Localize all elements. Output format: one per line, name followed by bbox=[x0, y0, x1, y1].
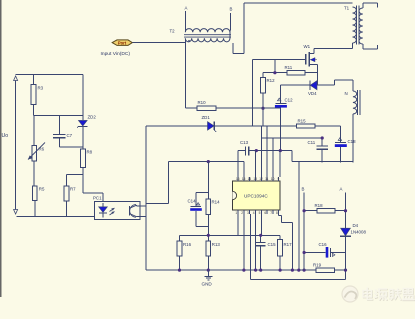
capacitor C12 bbox=[275, 98, 287, 107]
label C14 bbox=[188, 199, 197, 204]
capacitor C13 bbox=[246, 146, 249, 155]
svg-text:ZD1: ZD1 bbox=[202, 115, 211, 120]
wire W1 source down bbox=[316, 65, 318, 86]
zener diode ZD2 bbox=[77, 120, 88, 127]
wire R18 right bbox=[335, 210, 346, 212]
wire C15 bottom bbox=[260, 246, 262, 270]
wire R10 right to C12 bbox=[216, 107, 281, 109]
junction C13 right bbox=[255, 149, 258, 152]
wire W1 gate line bbox=[253, 60, 306, 127]
label ZD2 bbox=[88, 115, 97, 120]
wire N bottom to secondary line bbox=[352, 114, 354, 163]
wire pin16 up bbox=[237, 151, 239, 177]
junction on ground bus bbox=[242, 269, 245, 272]
junction on ground bus bbox=[279, 269, 282, 272]
svg-text:R11: R11 bbox=[285, 65, 293, 70]
label VD4 bbox=[308, 91, 317, 96]
svg-text:R14: R14 bbox=[212, 200, 221, 205]
svg-text:1: 1 bbox=[235, 211, 237, 215]
label 1N4008 bbox=[351, 230, 367, 235]
wire R7 top bbox=[66, 175, 68, 187]
junction on ground bus bbox=[254, 269, 257, 272]
winding N bbox=[353, 90, 360, 115]
resistor R14 bbox=[206, 199, 220, 214]
svg-text:14: 14 bbox=[248, 177, 252, 181]
junction on ground bus bbox=[303, 269, 306, 272]
wire C7 bottom bbox=[59, 138, 83, 147]
wire R6 to R5 bbox=[33, 161, 35, 186]
wire A stub bbox=[184, 11, 186, 32]
label GND bbox=[202, 282, 213, 287]
wire R7 bottom bbox=[66, 201, 68, 216]
junction R14 column top bbox=[207, 160, 210, 163]
resistor R10 bbox=[197, 100, 216, 110]
wire C7 top bbox=[58, 115, 60, 134]
label ZD1 bbox=[202, 115, 211, 120]
svg-text:R8: R8 bbox=[87, 150, 93, 155]
svg-text:W1: W1 bbox=[304, 44, 311, 49]
wire ground bus right bbox=[335, 269, 346, 271]
wire R16 top bbox=[179, 235, 181, 241]
svg-text:Input Vin(DC): Input Vin(DC) bbox=[101, 51, 131, 57]
wire C15 line bbox=[180, 235, 281, 239]
wire ZD1-line down to ground bus bbox=[145, 126, 147, 270]
resistor R8 bbox=[81, 149, 93, 167]
svg-text:B: B bbox=[230, 7, 233, 12]
wire T1 secondary top bbox=[363, 3, 378, 8]
svg-text:B: B bbox=[302, 187, 305, 192]
wire PC1 emitter stub bbox=[137, 216, 146, 218]
label C18 bbox=[348, 139, 357, 144]
wire ZD1 line right / R15 feed bbox=[214, 125, 296, 127]
wire VD4 to N bbox=[317, 80, 353, 91]
wire pin9 up bbox=[279, 151, 281, 177]
capacitor C7 bbox=[53, 134, 66, 137]
wire pin8 jog to bus bbox=[279, 214, 293, 270]
wire B column bbox=[303, 193, 305, 271]
wire R3 top bbox=[33, 75, 35, 85]
svg-text:4: 4 bbox=[253, 211, 255, 215]
svg-text:6: 6 bbox=[264, 211, 266, 215]
svg-text:VD4: VD4 bbox=[308, 91, 317, 96]
node B (top) bbox=[230, 7, 233, 12]
resistor R15 (top) bbox=[297, 119, 315, 129]
capacitor C15 bbox=[256, 243, 266, 246]
svg-text:R6: R6 bbox=[39, 147, 45, 152]
label C13 bbox=[240, 140, 249, 145]
junction on ground bus bbox=[297, 269, 300, 272]
port P1 Input Vin(DC) bbox=[112, 40, 132, 46]
svg-text:12: 12 bbox=[259, 177, 263, 181]
node A (bottom) bbox=[340, 187, 343, 192]
wire C14 top bbox=[196, 193, 208, 207]
svg-text:C13: C13 bbox=[240, 140, 249, 145]
IC pin numbers bbox=[235, 177, 279, 215]
transistor W1 (MOSFET) bbox=[306, 52, 318, 67]
wire pin4 down bbox=[255, 214, 257, 270]
label D4 bbox=[353, 223, 359, 228]
wire Vin column to R10 bbox=[185, 38, 197, 108]
wire node to R6 bbox=[33, 115, 35, 145]
ground GND bbox=[204, 270, 212, 280]
voltage arrow Uo bbox=[14, 76, 18, 214]
svg-text:R3: R3 bbox=[38, 86, 44, 91]
svg-text:N: N bbox=[345, 91, 348, 96]
transformer T1 windings and core bbox=[353, 6, 363, 45]
svg-text:R12: R12 bbox=[267, 78, 276, 83]
resistor R3 bbox=[31, 85, 43, 105]
optocoupler PC1 bbox=[95, 201, 141, 219]
junction C15 top bbox=[259, 234, 262, 237]
wire secondary branch to bus bbox=[298, 162, 300, 270]
label C16 bbox=[319, 242, 328, 247]
IC pin stubs bbox=[238, 177, 279, 214]
wire R12 top bbox=[262, 73, 264, 78]
svg-text:A: A bbox=[340, 187, 343, 192]
svg-text:UPC1094C: UPC1094C bbox=[244, 193, 268, 198]
wire ZD1 line left bbox=[146, 125, 208, 127]
svg-text:A: A bbox=[185, 6, 188, 11]
border left edge bbox=[0, 0, 2, 297]
svg-text:C15: C15 bbox=[268, 242, 277, 247]
svg-text:R15: R15 bbox=[298, 119, 307, 124]
svg-text:10: 10 bbox=[271, 177, 275, 181]
resistor R19 bbox=[313, 263, 335, 273]
wire pin13 up bbox=[255, 151, 257, 177]
resistor R16 bbox=[177, 241, 192, 256]
wire R17 bottom bbox=[279, 256, 281, 270]
label C15 bbox=[268, 242, 277, 247]
label W1 bbox=[304, 44, 311, 49]
svg-text:1N4008: 1N4008 bbox=[351, 230, 367, 235]
wire R12 bottom bbox=[262, 93, 264, 126]
wire node line bbox=[34, 114, 83, 116]
junction R12/R10 line bbox=[261, 107, 264, 110]
op-amp U1 UPC1094C bbox=[232, 181, 280, 210]
label N bbox=[345, 91, 348, 96]
junction R18 left bbox=[303, 209, 306, 212]
junction on ground bus bbox=[291, 269, 294, 272]
wire R11 right bbox=[305, 72, 317, 74]
svg-text:8: 8 bbox=[276, 211, 278, 215]
wire R11 left bbox=[263, 72, 287, 74]
svg-text:C11: C11 bbox=[308, 140, 316, 145]
junction C11 top bbox=[321, 136, 324, 139]
wire R18 left bbox=[304, 210, 317, 212]
svg-text:5: 5 bbox=[259, 211, 261, 215]
resistor R11 bbox=[285, 65, 306, 75]
junction gate/R11 bbox=[273, 71, 276, 74]
svg-text:R18: R18 bbox=[315, 203, 324, 208]
junction on ground bus bbox=[259, 269, 262, 272]
wire C13 right bbox=[249, 150, 280, 152]
wire B stub bbox=[229, 13, 232, 38]
wire C16 left bbox=[304, 252, 326, 254]
wire output rail bbox=[15, 75, 83, 120]
wire PC1 collector stub bbox=[137, 204, 146, 207]
svg-text:16: 16 bbox=[236, 177, 240, 181]
label PC1 bbox=[93, 196, 102, 201]
resistor R5 bbox=[32, 186, 45, 201]
wire C11 top bbox=[321, 138, 323, 146]
wire R15 to C18 bbox=[315, 126, 341, 142]
wiper arrow R6 bbox=[28, 143, 45, 160]
wire C15 top bbox=[260, 235, 262, 242]
label C7 bbox=[67, 133, 73, 138]
wire R5 bottom bbox=[34, 201, 36, 217]
svg-text:C16: C16 bbox=[319, 242, 328, 247]
watermark logo and text bbox=[342, 286, 415, 302]
node A (top) bbox=[185, 6, 188, 11]
wire y138 corner up bbox=[260, 126, 262, 138]
svg-text:13: 13 bbox=[253, 177, 257, 181]
junction C16 left bbox=[303, 251, 306, 254]
resistor R18 bbox=[315, 203, 335, 213]
wire R13 bottom bbox=[207, 256, 209, 270]
label C11 bbox=[308, 140, 316, 145]
wire pin10 up bbox=[272, 138, 274, 177]
wire pin1 down bbox=[237, 214, 239, 235]
wire C16 right bbox=[330, 252, 345, 254]
wire R7 top line bbox=[67, 174, 83, 176]
wire pin5 down bbox=[260, 214, 262, 235]
svg-text:C12: C12 bbox=[285, 98, 294, 103]
svg-text:3: 3 bbox=[247, 211, 249, 215]
svg-text:C14: C14 bbox=[188, 199, 197, 204]
wire C13 left bbox=[238, 150, 246, 152]
svg-text:ZD2: ZD2 bbox=[88, 115, 97, 120]
svg-text:15: 15 bbox=[242, 177, 246, 181]
wire T1 secondary bottom bbox=[363, 44, 378, 49]
svg-text:T2: T2 bbox=[170, 29, 176, 34]
wire port to T2 bbox=[132, 42, 185, 44]
resistor R17 bbox=[278, 240, 292, 257]
junction on ground bus bbox=[207, 269, 210, 272]
wire pin15 net line bbox=[146, 162, 244, 204]
capacitor C14 bbox=[190, 203, 202, 211]
junction on ground bus bbox=[178, 269, 181, 272]
wire A column bbox=[345, 193, 347, 271]
wire C11 bottom bbox=[321, 149, 323, 162]
diode VD4 bbox=[310, 81, 317, 90]
wire pin12 up bbox=[260, 138, 262, 177]
svg-text:R10: R10 bbox=[198, 100, 207, 105]
svg-text:PC1: PC1 bbox=[93, 196, 102, 201]
wire T1 primary bottom to W1 drain bbox=[309, 43, 352, 54]
svg-text:GND: GND bbox=[202, 282, 213, 287]
svg-text:C7: C7 bbox=[67, 133, 73, 138]
svg-text:R19: R19 bbox=[313, 263, 322, 268]
svg-text:Uo: Uo bbox=[2, 133, 9, 139]
wire VD4 line to N winding bbox=[281, 84, 310, 86]
polarity dot T2 bbox=[188, 40, 190, 42]
svg-text:11: 11 bbox=[265, 177, 269, 181]
svg-text:T1: T1 bbox=[344, 6, 350, 11]
junction on ground bus bbox=[344, 269, 347, 272]
svg-text:7: 7 bbox=[270, 211, 272, 215]
diode D4 bbox=[340, 228, 351, 236]
junction pin9 node bbox=[279, 149, 282, 152]
wire R3 bottom / node line bbox=[33, 105, 35, 116]
wire C14 bottom bbox=[196, 211, 208, 227]
wire R14 column bbox=[207, 162, 209, 199]
label T1 bbox=[344, 6, 350, 11]
wire ground bus bbox=[146, 269, 316, 271]
svg-text:R7: R7 bbox=[70, 187, 76, 192]
label Uo bbox=[2, 133, 9, 139]
resistor R7 bbox=[64, 186, 76, 201]
svg-text:D4: D4 bbox=[353, 223, 359, 228]
resistor R12 bbox=[261, 78, 276, 93]
wire pin11 up bbox=[266, 126, 268, 177]
wire C12 bottom bbox=[280, 108, 282, 151]
zener diode ZD1 bbox=[208, 122, 217, 132]
wire pin3 down to lower loop bbox=[251, 214, 346, 280]
wire R14 bottom bbox=[207, 214, 209, 241]
svg-text:9: 9 bbox=[278, 177, 280, 181]
label Input Vin(DC) bbox=[101, 51, 131, 57]
label T2 bbox=[170, 29, 176, 34]
wire line to C11 bbox=[261, 137, 322, 139]
label C12 bbox=[285, 98, 294, 103]
junction C15 line / R14 column bbox=[207, 234, 210, 237]
wire C18 bottom bbox=[340, 147, 342, 163]
wire T2 secondary right to top rail bbox=[233, 3, 352, 54]
svg-text:2: 2 bbox=[241, 211, 243, 215]
junction R18 right bbox=[344, 209, 347, 212]
wire pin2 down bbox=[243, 214, 245, 270]
capacitor C16 bbox=[326, 247, 335, 258]
svg-text:C18: C18 bbox=[348, 139, 357, 144]
wire secondary return bbox=[280, 151, 353, 162]
wire ZD2 to R8 bbox=[82, 127, 84, 150]
wire bottom reference line bbox=[17, 215, 95, 217]
wire gate branch to R11 bbox=[274, 60, 276, 73]
transformer T2 windings and core bbox=[184, 29, 231, 42]
svg-text:R17: R17 bbox=[284, 242, 293, 247]
wire R8 bottom bbox=[83, 168, 103, 202]
svg-text:Port: Port bbox=[118, 41, 127, 46]
wire R16 bottom bbox=[179, 256, 181, 270]
resistor R13 (lower) bbox=[206, 241, 221, 256]
svg-text:R5: R5 bbox=[39, 187, 45, 192]
capacitor C11 bbox=[317, 146, 329, 149]
capacitor C18 bbox=[335, 138, 347, 147]
resistor R6 bbox=[32, 146, 45, 161]
svg-text:R16: R16 bbox=[183, 242, 192, 247]
wire C12 top bbox=[280, 85, 282, 103]
svg-text:R13: R13 bbox=[212, 242, 221, 247]
node B (bottom) bbox=[302, 187, 305, 192]
